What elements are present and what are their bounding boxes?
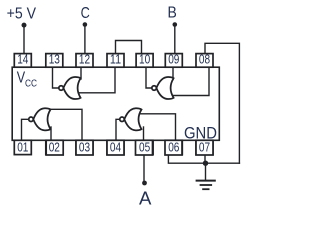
svg-text:04: 04 — [110, 141, 121, 155]
svg-text:C: C — [81, 5, 90, 22]
svg-text:05: 05 — [139, 141, 150, 155]
svg-text:10: 10 — [139, 53, 150, 67]
svg-text:GND: GND — [184, 125, 217, 143]
svg-text:14: 14 — [17, 53, 28, 67]
svg-text:01: 01 — [17, 141, 28, 155]
svg-text:06: 06 — [168, 141, 179, 155]
svg-text:CC: CC — [25, 78, 37, 89]
svg-text:11: 11 — [110, 53, 121, 67]
svg-text:03: 03 — [79, 141, 90, 155]
svg-text:02: 02 — [49, 141, 60, 155]
svg-text:B: B — [168, 5, 177, 22]
svg-text:08: 08 — [199, 53, 210, 67]
svg-text:09: 09 — [168, 53, 179, 67]
svg-text:07: 07 — [199, 141, 210, 155]
svg-text:12: 12 — [79, 53, 90, 67]
svg-text:+5 V: +5 V — [7, 6, 37, 23]
svg-text:13: 13 — [49, 53, 60, 67]
svg-text:A: A — [139, 188, 152, 209]
